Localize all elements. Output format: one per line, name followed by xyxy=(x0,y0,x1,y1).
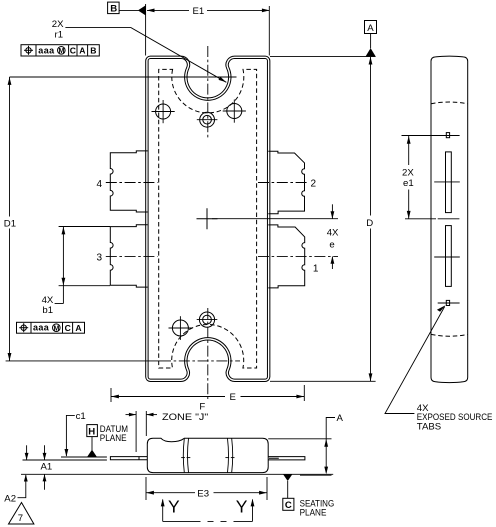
exposed tab slot lower xyxy=(446,226,452,287)
svg-text:B: B xyxy=(110,4,117,15)
svg-text:c1: c1 xyxy=(76,411,86,422)
rivet bottom (double circle) xyxy=(197,312,218,327)
datum B xyxy=(108,2,146,15)
svg-text:4X: 4X xyxy=(327,227,339,238)
side center line / e1 extension xyxy=(405,218,459,220)
pin 1 (right lower lead) xyxy=(268,225,304,288)
D1 dimension (far left) xyxy=(4,77,16,361)
svg-text:r1: r1 xyxy=(55,29,64,40)
mounting hole bottom-left xyxy=(169,316,193,340)
svg-text:A: A xyxy=(79,46,85,56)
svg-text:2: 2 xyxy=(311,179,317,190)
svg-text:b1: b1 xyxy=(42,305,53,316)
center horizontal extension line for e dimension xyxy=(212,218,338,220)
E1 dimension xyxy=(146,4,270,56)
package body outline (top view, double line) xyxy=(147,57,269,380)
4X b1 dimension xyxy=(42,227,110,316)
svg-text:E: E xyxy=(230,392,236,403)
svg-text:aaa: aaa xyxy=(33,323,50,333)
svg-text:1: 1 xyxy=(313,264,319,275)
svg-text:D1: D1 xyxy=(4,219,16,230)
datum H symbol xyxy=(87,424,128,457)
pin 2 (right upper lead) xyxy=(268,151,304,214)
svg-text:C: C xyxy=(65,323,71,333)
section Y-Y marks xyxy=(161,496,255,521)
svg-text:4: 4 xyxy=(97,179,103,190)
mounting hole top-right xyxy=(223,100,246,123)
svg-text:C: C xyxy=(70,46,76,56)
svg-text:C: C xyxy=(285,500,292,511)
side view dashed edge arc top xyxy=(431,102,468,104)
exposed tab slot upper xyxy=(446,152,452,213)
bottom notch horizontal centerline / D1 extension xyxy=(6,360,160,362)
top notch vertical centerline xyxy=(207,46,209,140)
svg-text:Y: Y xyxy=(168,496,180,516)
feature control frame top (pos | aaa M | C | A | B) xyxy=(21,45,99,56)
pin 2 centerline xyxy=(258,182,309,184)
pin 3 (left lower lead) xyxy=(110,225,147,287)
svg-text:B: B xyxy=(90,46,96,56)
A dimension (front view right) xyxy=(268,413,343,475)
4X e dimension xyxy=(327,204,339,269)
svg-text:E3: E3 xyxy=(197,488,209,499)
exposed tab bottom (small) xyxy=(446,300,449,305)
svg-text:7: 7 xyxy=(18,513,23,524)
top notch horizontal centerline / D1 extension xyxy=(10,76,237,78)
side crossing line at bottom tab xyxy=(438,302,460,304)
svg-text:E1: E1 xyxy=(193,6,205,17)
2X e1 dimension xyxy=(402,136,414,219)
svg-text:A: A xyxy=(337,413,344,424)
hidden (dashed) inner outline xyxy=(159,69,257,368)
svg-text:ZONE "J": ZONE "J" xyxy=(162,412,208,423)
svg-text:D: D xyxy=(366,218,373,229)
mounting hole top-left xyxy=(152,100,175,123)
note flag triangle 7 xyxy=(9,503,34,525)
svg-text:A: A xyxy=(75,323,81,333)
side crossing line at pin2 level xyxy=(434,181,460,183)
svg-text:A1: A1 xyxy=(41,462,53,473)
svg-text:A2: A2 xyxy=(4,494,16,505)
svg-text:aaa: aaa xyxy=(38,45,55,55)
front left lead xyxy=(110,457,147,460)
mold line pair right xyxy=(225,439,234,473)
side view dashed edge arc bottom xyxy=(431,334,468,336)
svg-text:A: A xyxy=(367,23,374,34)
svg-text:Y: Y xyxy=(236,496,248,516)
bottom notch vertical centerline xyxy=(207,308,209,399)
pin 4 (left upper lead) xyxy=(110,151,147,212)
F dimension and ZONE J xyxy=(126,401,209,452)
front right lead xyxy=(268,457,305,460)
E dimension (below top view) xyxy=(111,385,304,403)
datum A (top right) xyxy=(270,21,377,57)
svg-text:e1: e1 xyxy=(403,178,414,189)
svg-text:M: M xyxy=(59,48,65,55)
datum plane extension (lead top) xyxy=(61,456,107,458)
r1 note 2X r1 with leader xyxy=(52,19,227,83)
mold line pair left xyxy=(181,439,190,473)
datum C seating plane xyxy=(283,475,334,519)
datum plane extension (lead bottom) xyxy=(23,459,107,461)
D dimension (right of top view) xyxy=(270,57,376,382)
side view body outline xyxy=(431,56,468,383)
pin 1 centerline xyxy=(258,255,338,257)
svg-text:TABS: TABS xyxy=(417,422,441,433)
seating plane line xyxy=(21,473,333,475)
svg-text:3: 3 xyxy=(97,253,103,264)
E3 dimension xyxy=(146,477,267,500)
svg-text:e: e xyxy=(329,240,334,251)
rivet top (double circle) xyxy=(197,112,218,127)
pin 3 centerline xyxy=(106,255,158,257)
svg-text:F: F xyxy=(199,401,205,412)
svg-text:PLANE: PLANE xyxy=(100,433,127,444)
svg-text:2X: 2X xyxy=(52,19,64,30)
front view body outline xyxy=(147,438,268,472)
side crossing line at top tab / e1 extension xyxy=(402,135,460,137)
feature control frame bottom (pos | aaa M | C | A) xyxy=(17,322,85,333)
A2 dimension xyxy=(4,474,27,504)
side crossing line at pin1 level xyxy=(434,256,460,258)
pin 4 centerline xyxy=(106,182,158,184)
svg-text:M: M xyxy=(54,325,60,332)
c1 dimension leader xyxy=(65,411,86,457)
exposed tab top (small) xyxy=(446,133,449,138)
center mark xyxy=(197,208,218,229)
svg-text:PLANE: PLANE xyxy=(300,507,327,518)
leader 4X exposed source tabs xyxy=(385,305,492,432)
A1 dimension xyxy=(25,445,53,490)
svg-text:H: H xyxy=(88,426,95,437)
